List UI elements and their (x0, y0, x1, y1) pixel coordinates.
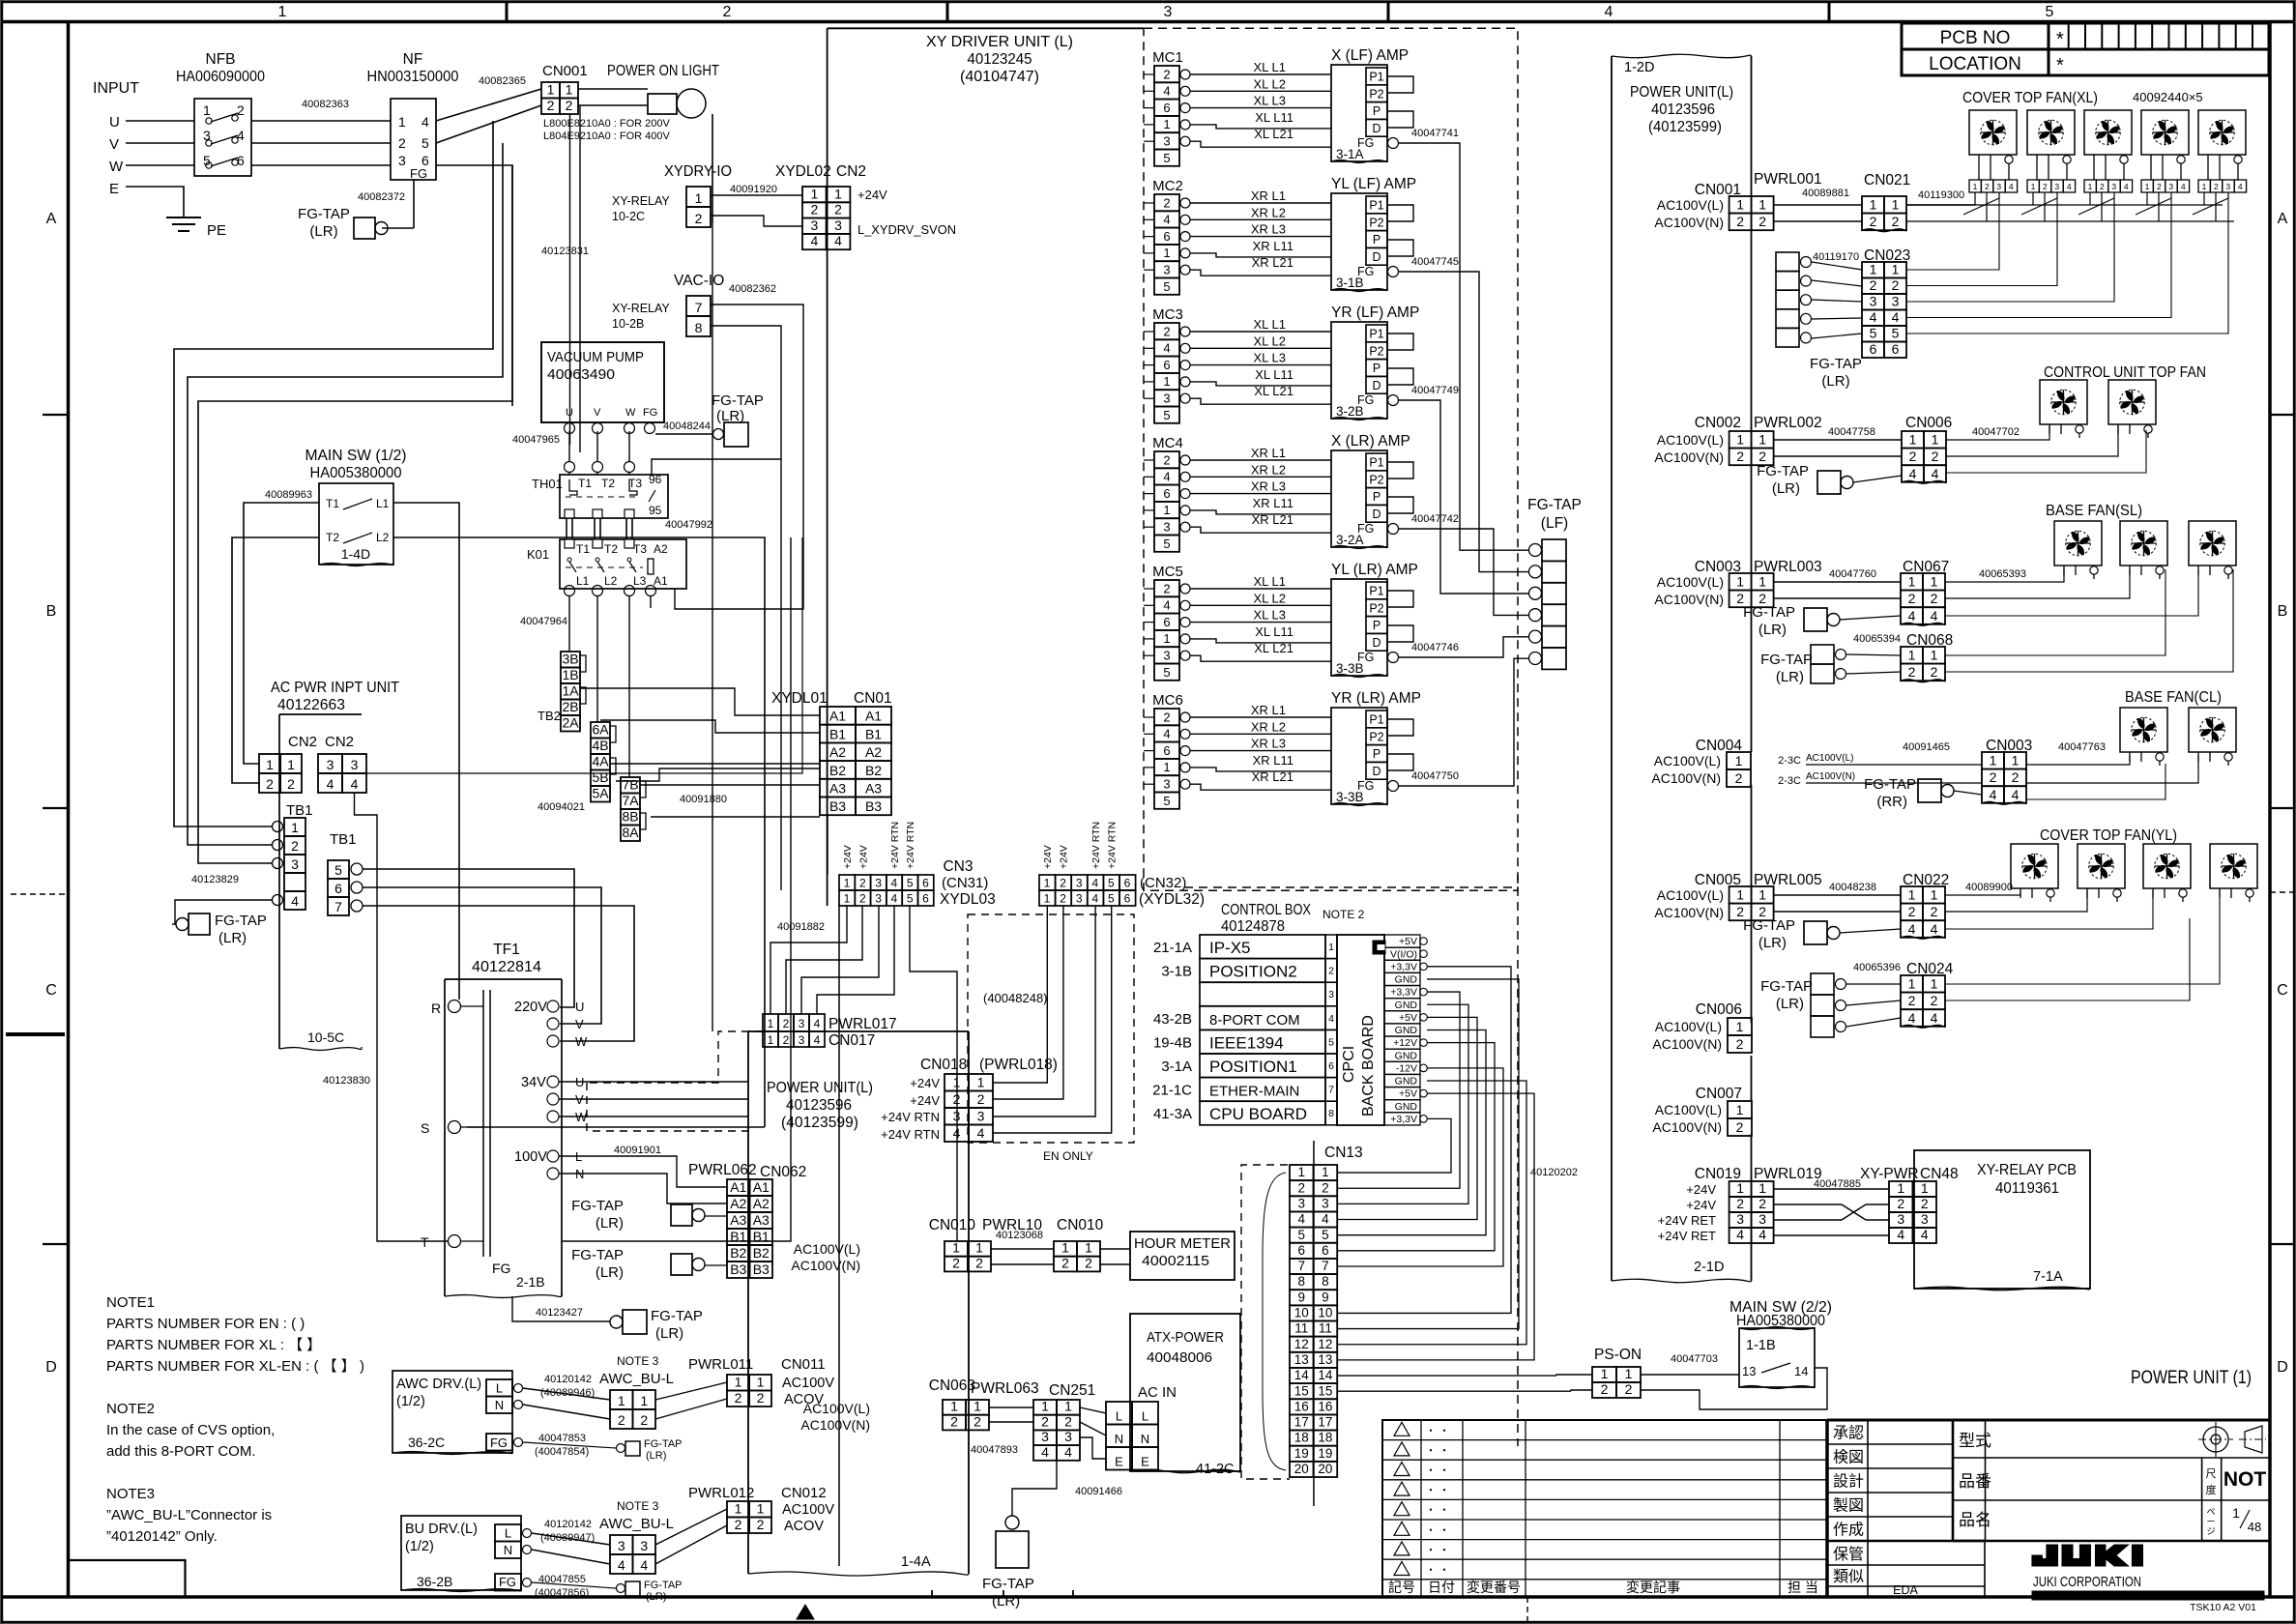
svg-text:8: 8 (1298, 1274, 1306, 1289)
svg-text:1-4D: 1-4D (341, 546, 370, 562)
svg-text:2: 2 (1085, 1255, 1092, 1270)
svg-text:5: 5 (1298, 1228, 1306, 1242)
wire NF to CN001 diag 2 (436, 105, 541, 143)
CN13 dashed box (1241, 1165, 1290, 1479)
svg-text:4: 4 (1897, 1227, 1904, 1242)
svg-text:IP-X5: IP-X5 (1209, 939, 1251, 957)
svg-text:40091465: 40091465 (1903, 741, 1950, 753)
svg-text:40063490: 40063490 (547, 366, 615, 383)
power unit (L) right box (1611, 56, 1613, 1281)
svg-text:3: 3 (1041, 1429, 1049, 1444)
terminal TB2 stack2 (591, 722, 610, 739)
wire NFB-NF W (251, 164, 391, 166)
svg-text:6: 6 (1163, 101, 1170, 115)
svg-text:4: 4 (291, 893, 299, 909)
svg-text:2: 2 (1908, 904, 1916, 919)
svg-text:3: 3 (799, 1017, 805, 1030)
svg-text:40047760: 40047760 (1829, 568, 1876, 580)
svg-text:AC100V(N): AC100V(N) (1654, 449, 1724, 465)
svg-text:43-2B: 43-2B (1153, 1011, 1192, 1028)
svg-text:3-2A: 3-2A (1336, 533, 1364, 547)
svg-text:4: 4 (1908, 1010, 1916, 1026)
svg-text:XR L2: XR L2 (1251, 719, 1286, 734)
svg-text:N: N (504, 1543, 512, 1557)
svg-text:16: 16 (1294, 1399, 1309, 1413)
svg-text:FG-TAP: FG-TAP (1810, 356, 1862, 372)
svg-text:3: 3 (1076, 892, 1083, 906)
wire TB2 to XYDL01 A1 (580, 688, 820, 715)
svg-text:CN011: CN011 (781, 1356, 826, 1373)
svg-text:FG-TAP: FG-TAP (1864, 776, 1916, 793)
svg-text:W: W (575, 1034, 588, 1049)
svg-text:L: L (496, 1381, 503, 1396)
svg-text:1: 1 (266, 757, 274, 772)
revision triangles and dots (1394, 1422, 1410, 1435)
svg-text:2: 2 (1908, 591, 1916, 606)
svg-text:POWER UNIT(L): POWER UNIT(L) (767, 1080, 873, 1096)
svg-text:AC100V(N): AC100V(N) (1652, 1036, 1722, 1052)
svg-text:40119300: 40119300 (1918, 189, 1964, 201)
svg-text:4: 4 (1870, 309, 1877, 325)
svg-text:4: 4 (2238, 182, 2243, 191)
svg-text:A2: A2 (829, 744, 846, 760)
svg-text:40047965: 40047965 (512, 434, 560, 446)
svg-text:(LR): (LR) (1776, 669, 1804, 685)
svg-text:1B: 1B (562, 667, 578, 682)
svg-text:T3: T3 (628, 477, 642, 490)
svg-text:1: 1 (1897, 1180, 1904, 1196)
svg-text:2: 2 (1298, 1180, 1306, 1195)
svg-text:A3: A3 (753, 1212, 770, 1228)
svg-text:5: 5 (203, 153, 211, 168)
svg-text:CN010: CN010 (1057, 1217, 1104, 1233)
svg-text:1: 1 (735, 1375, 742, 1390)
svg-text:FG: FG (410, 166, 427, 181)
svg-text:ETHER-MAIN: ETHER-MAIN (1209, 1084, 1299, 1100)
svg-text:2-3C: 2-3C (1778, 755, 1801, 767)
svg-text:PWRL011: PWRL011 (688, 1356, 753, 1373)
svg-text:COVER TOP FAN(YL): COVER TOP FAN(YL) (2040, 827, 2177, 844)
svg-text:4: 4 (977, 1125, 985, 1141)
svg-text:3: 3 (1163, 263, 1170, 277)
type/part-number/name table (1952, 1420, 1955, 1541)
svg-text:4: 4 (1932, 466, 1939, 481)
svg-text:+24V: +24V (910, 1093, 940, 1108)
svg-text:3: 3 (1870, 294, 1877, 309)
svg-text:XR L2: XR L2 (1251, 462, 1286, 477)
svg-text:・ ・: ・ ・ (1425, 1505, 1449, 1517)
svg-text:12: 12 (1318, 1337, 1332, 1351)
svg-text:1: 1 (2232, 1505, 2240, 1521)
svg-text:P2: P2 (1369, 87, 1383, 101)
svg-text:MAIN SW (1/2): MAIN SW (1/2) (305, 448, 407, 464)
svg-text:PE: PE (207, 222, 226, 239)
svg-text:AC100V(L): AC100V(L) (1806, 753, 1853, 764)
svg-text:AC100V(N): AC100V(N) (791, 1258, 860, 1273)
svg-text:3: 3 (618, 1538, 625, 1553)
svg-text:6A: 6A (592, 722, 609, 738)
svg-text:・ ・: ・ ・ (1425, 1425, 1449, 1436)
svg-text:COVER TOP FAN(XL): COVER TOP FAN(XL) (1962, 90, 2098, 106)
svg-text:D: D (45, 1359, 57, 1376)
svg-text:D: D (2277, 1359, 2288, 1376)
svg-text:CONTROL UNIT TOP FAN: CONTROL UNIT TOP FAN (2044, 364, 2206, 381)
JUKI logo (2032, 1545, 2142, 1566)
svg-text:2: 2 (1908, 664, 1916, 680)
svg-text:1: 1 (1064, 1399, 1072, 1414)
svg-text:4: 4 (1163, 341, 1170, 356)
svg-text:P2: P2 (1369, 216, 1383, 229)
svg-text:5: 5 (334, 862, 342, 878)
svg-text:40047702: 40047702 (1972, 426, 2020, 438)
svg-text:E: E (109, 181, 119, 197)
svg-text:2: 2 (1064, 1413, 1072, 1429)
svg-text:POWER UNIT (1): POWER UNIT (1) (2131, 1368, 2252, 1388)
svg-text:CN251: CN251 (1049, 1382, 1095, 1399)
svg-text:PCB NO: PCB NO (1940, 28, 2011, 48)
svg-text:40047964: 40047964 (520, 616, 567, 627)
svg-text:34V: 34V (521, 1075, 546, 1090)
svg-text:CN006: CN006 (1696, 1001, 1742, 1018)
svg-text:AC100V(N): AC100V(N) (1654, 905, 1724, 920)
svg-text:40048006: 40048006 (1147, 1349, 1212, 1366)
svg-text:2: 2 (1163, 67, 1170, 81)
svg-text:(XYDL32): (XYDL32) (1139, 891, 1205, 908)
svg-text:4: 4 (1091, 892, 1098, 906)
svg-text:XL L21: XL L21 (1254, 641, 1293, 655)
svg-text:40065394: 40065394 (1853, 633, 1901, 645)
svg-text:A1: A1 (865, 709, 882, 724)
svg-text:P1: P1 (1369, 585, 1383, 598)
svg-text:FG-TAP: FG-TAP (1760, 652, 1813, 668)
svg-text:1: 1 (1931, 574, 1938, 590)
svg-text:40122814: 40122814 (472, 959, 541, 975)
TF1 FG tap wire (512, 1296, 610, 1321)
wire TB2 to XYDL01 B1 (600, 720, 820, 733)
svg-text:2: 2 (2214, 182, 2219, 191)
svg-text:TB1: TB1 (286, 802, 313, 819)
wires MC feeds from dashed box left (1144, 73, 1154, 75)
svg-text:2: 2 (1736, 214, 1744, 229)
svg-text:U: U (575, 1000, 584, 1014)
svg-text:P: P (1373, 619, 1381, 632)
wire mainsw left 2 (232, 537, 319, 783)
svg-text:X (LR) AMP: X (LR) AMP (1331, 433, 1410, 449)
contactor K01 (560, 539, 686, 589)
svg-text:7: 7 (695, 300, 703, 315)
dashed EN alt path at CN017 (587, 1031, 763, 1083)
svg-text:3: 3 (834, 217, 842, 233)
svg-text:XL L2: XL L2 (1254, 333, 1287, 348)
svg-text:PWRL062: PWRL062 (688, 1162, 757, 1178)
svg-text:1: 1 (757, 1375, 765, 1390)
FG-TAP (LR) tf1 (623, 1310, 647, 1334)
svg-text:B2: B2 (753, 1245, 770, 1261)
wire mainsw left 1 (244, 503, 319, 764)
wire 100V N (559, 1174, 727, 1203)
svg-text:NOTE 3: NOTE 3 (617, 1354, 659, 1368)
svg-text:7: 7 (334, 899, 342, 914)
svg-text:P2: P2 (1369, 601, 1383, 615)
svg-text:+3,3V: +3,3V (1390, 961, 1417, 972)
svg-text:AC100V(L): AC100V(L) (1657, 574, 1724, 590)
svg-text:1: 1 (1736, 1180, 1744, 1196)
svg-text:検図: 検図 (1833, 1449, 1864, 1466)
svg-text:CN3: CN3 (943, 858, 973, 875)
svg-text:3: 3 (1163, 649, 1170, 663)
wires CN13 bundle to PS-ON (1556, 1375, 1592, 1376)
svg-text:T2: T2 (326, 531, 339, 544)
svg-text:40065396: 40065396 (1853, 962, 1901, 973)
svg-text:1: 1 (953, 1075, 961, 1090)
svg-text:40047746: 40047746 (1411, 642, 1459, 653)
right box edge segments (1751, 231, 1753, 431)
svg-text:XYDL02: XYDL02 (775, 163, 831, 180)
zone row ticks left (43, 414, 69, 416)
svg-text:(RR): (RR) (1876, 794, 1907, 810)
svg-text:4: 4 (1091, 877, 1098, 890)
wire NF down W (436, 165, 512, 406)
svg-text:1: 1 (1298, 1165, 1306, 1179)
svg-text:2B: 2B (562, 699, 578, 714)
svg-text:POSITION1: POSITION1 (1209, 1058, 1297, 1076)
wire input W (126, 164, 194, 166)
wire NFB-NF U (251, 120, 391, 122)
svg-text:AC100V(L): AC100V(L) (803, 1401, 870, 1416)
svg-text:4: 4 (1605, 4, 1613, 20)
svg-text:1: 1 (952, 1240, 960, 1256)
svg-text:40124878: 40124878 (1221, 918, 1285, 935)
wires CN32 down to CN018 (993, 906, 1047, 1083)
svg-text:PWRL063: PWRL063 (971, 1380, 1039, 1397)
svg-text:XYDRY-IO: XYDRY-IO (664, 163, 732, 180)
wire 34V V (559, 1098, 748, 1100)
svg-text:2: 2 (1908, 993, 1916, 1008)
wires CN067 to base fans SL (1945, 569, 2064, 582)
svg-text:220V: 220V (514, 1000, 547, 1015)
svg-text:AC100V(N): AC100V(N) (1654, 592, 1724, 607)
svg-text:+24V RET: +24V RET (1658, 1229, 1716, 1243)
svg-text:R: R (431, 1000, 441, 1016)
svg-text:7B: 7B (622, 777, 638, 793)
svg-text:XL L11: XL L11 (1255, 110, 1293, 125)
svg-text:2: 2 (1909, 449, 1917, 464)
svg-text:NOTE 3: NOTE 3 (617, 1499, 659, 1513)
svg-text:承認: 承認 (1833, 1425, 1864, 1442)
svg-text:XY-RELAY: XY-RELAY (612, 302, 670, 315)
svg-text:(40048248): (40048248) (983, 991, 1048, 1005)
svg-text:FG-TAP: FG-TAP (982, 1576, 1034, 1592)
wire mainsw right 2 (393, 537, 765, 1127)
svg-text:5A: 5A (592, 786, 609, 801)
svg-text:1: 1 (1758, 1180, 1766, 1196)
svg-text:5: 5 (2046, 4, 2054, 20)
svg-text:1: 1 (1736, 887, 1744, 903)
wires MC1 to amp (1190, 73, 1331, 75)
wire tb1b-5 (363, 869, 574, 1007)
svg-text:5: 5 (1163, 408, 1170, 422)
svg-text:4: 4 (351, 776, 359, 792)
svg-text:NOT: NOT (2223, 1468, 2267, 1491)
svg-text:(CN31): (CN31) (942, 875, 988, 891)
svg-text:1: 1 (1908, 976, 1916, 992)
svg-text:6: 6 (1163, 229, 1170, 244)
amp YR (LR) AMP P jumper wires (1387, 719, 1413, 736)
svg-text:17: 17 (1318, 1415, 1332, 1430)
svg-text:(LR): (LR) (1772, 480, 1800, 497)
svg-text:2: 2 (859, 892, 866, 906)
CPCI BACK BOARD (1337, 935, 1384, 1125)
wires CN024 to fans (1945, 890, 2220, 984)
wires CN023 to fan pin3 (1906, 192, 1999, 270)
svg-text:FG-TAP: FG-TAP (571, 1198, 624, 1214)
bottom fold marks (1526, 1597, 1528, 1622)
FG-TAP CN251 (1005, 1516, 1019, 1529)
svg-text:4: 4 (1892, 309, 1900, 325)
svg-text:2: 2 (1041, 1413, 1049, 1429)
svg-text:6: 6 (922, 877, 929, 890)
svg-text:2: 2 (2157, 182, 2162, 191)
svg-text:6: 6 (1892, 341, 1900, 357)
svg-text:XR L21: XR L21 (1252, 512, 1293, 527)
amp YR (LF) AMP P jumper wires (1387, 333, 1413, 350)
svg-text:AWC_BU-L: AWC_BU-L (599, 1516, 674, 1532)
svg-text:4: 4 (814, 1033, 821, 1047)
svg-text:FG-TAP: FG-TAP (651, 1308, 703, 1324)
svg-text:・ ・: ・ ・ (1425, 1465, 1449, 1477)
wires amp FG to FG-TAP LF (1399, 143, 1528, 550)
FG-TAP (LR) left low (172, 900, 272, 924)
svg-text:ー: ー (2206, 1517, 2215, 1526)
svg-text:1: 1 (287, 757, 295, 772)
svg-text:8: 8 (1328, 1108, 1334, 1119)
svg-text:1: 1 (844, 877, 851, 890)
svg-text:40123831: 40123831 (541, 246, 589, 257)
svg-text:1: 1 (1163, 246, 1170, 260)
svg-text:XY-RELAY PCB: XY-RELAY PCB (1977, 1162, 2077, 1178)
svg-text:FG-TAP: FG-TAP (571, 1247, 624, 1263)
svg-text:XR L2: XR L2 (1251, 205, 1286, 219)
svg-text:MC5: MC5 (1152, 564, 1183, 580)
svg-text:PWRL017: PWRL017 (828, 1016, 897, 1032)
svg-text:1: 1 (278, 4, 287, 20)
lamp wires (578, 88, 648, 90)
svg-text:T2: T2 (601, 477, 615, 490)
svg-text:A2: A2 (865, 744, 882, 760)
svg-text:10-2C: 10-2C (612, 210, 645, 223)
svg-text:4: 4 (1908, 608, 1916, 623)
svg-text:1: 1 (2012, 753, 2020, 768)
svg-text:V: V (109, 136, 119, 153)
svg-text:CPU BOARD: CPU BOARD (1209, 1105, 1307, 1123)
svg-text:2: 2 (1601, 1381, 1609, 1397)
svg-text:YL (LR) AMP: YL (LR) AMP (1331, 562, 1418, 578)
wire NF FG (413, 180, 415, 228)
svg-text:3-1B: 3-1B (1336, 275, 1364, 290)
svg-text:EN ONLY: EN ONLY (1043, 1149, 1093, 1163)
svg-text:4: 4 (834, 233, 842, 248)
svg-text:1: 1 (203, 102, 211, 118)
svg-text:+5V: +5V (1399, 1088, 1417, 1100)
svg-text:2: 2 (950, 1413, 958, 1429)
svg-text:40123245: 40123245 (968, 51, 1032, 68)
svg-text:A3: A3 (829, 781, 846, 797)
svg-text:6: 6 (1163, 358, 1170, 372)
svg-text:3: 3 (799, 1033, 805, 1047)
svg-text:40120142: 40120142 (544, 1519, 592, 1530)
svg-text:2: 2 (1328, 966, 1334, 977)
svg-text:6: 6 (922, 892, 929, 906)
svg-text:AC100V(N): AC100V(N) (1652, 1119, 1722, 1135)
svg-text:2: 2 (834, 202, 842, 217)
svg-text:BACK BOARD: BACK BOARD (1360, 1015, 1377, 1116)
svg-text:PWRL001: PWRL001 (1754, 171, 1822, 188)
svg-text:36-2C: 36-2C (408, 1435, 445, 1450)
svg-text:14: 14 (1318, 1368, 1333, 1382)
svg-text:40047742: 40047742 (1411, 513, 1459, 525)
svg-text:1-1B: 1-1B (1746, 1338, 1776, 1353)
svg-text:AC100V(L): AC100V(L) (1657, 197, 1724, 213)
svg-text:HN003150000: HN003150000 (367, 69, 459, 85)
svg-text:3: 3 (1163, 777, 1170, 792)
svg-text:2: 2 (1870, 277, 1877, 293)
svg-text:2: 2 (1990, 769, 1997, 785)
svg-text:XL L1: XL L1 (1254, 60, 1287, 74)
svg-text:FG: FG (643, 407, 657, 419)
svg-text:1: 1 (1758, 197, 1766, 213)
svg-text:(40047854): (40047854) (535, 1446, 589, 1458)
svg-text:+24V RTN: +24V RTN (1090, 822, 1102, 869)
svg-text:3-2B: 3-2B (1336, 404, 1364, 419)
svg-text:B3: B3 (865, 798, 882, 814)
svg-text:12: 12 (1294, 1337, 1309, 1351)
svg-text:2: 2 (1892, 277, 1900, 293)
svg-text:1: 1 (1736, 1019, 1744, 1034)
backboard power rail (1384, 935, 1420, 947)
svg-text:AC100V(L): AC100V(L) (1657, 432, 1724, 448)
wires PWRL002-CN006 (1774, 439, 1902, 441)
svg-text:3: 3 (1996, 182, 2001, 191)
svg-text:”AWC_BU-L”Connector is: ”AWC_BU-L”Connector is (106, 1507, 272, 1523)
svg-text:(40123599): (40123599) (1648, 119, 1722, 135)
svg-text:CONTROL BOX: CONTROL BOX (1221, 902, 1312, 918)
svg-text:40123596: 40123596 (1651, 101, 1715, 118)
wire TB2 to XYDL01 B2 (616, 768, 820, 781)
svg-text:2: 2 (266, 776, 274, 792)
svg-text:40048244: 40048244 (663, 420, 711, 432)
wire B3 to CN3 (827, 815, 828, 875)
svg-text:+24V RET: +24V RET (1658, 1213, 1716, 1228)
svg-text:YL (LF) AMP: YL (LF) AMP (1331, 176, 1416, 192)
svg-text:7-1A: 7-1A (2033, 1269, 2063, 1285)
svg-text:9: 9 (1298, 1290, 1306, 1304)
svg-text:2: 2 (1736, 1036, 1744, 1052)
fan wiring XL (1978, 164, 1980, 180)
svg-text:5: 5 (1163, 279, 1170, 294)
svg-text:4: 4 (2067, 182, 2072, 191)
svg-text:+24V RTN: +24V RTN (1106, 822, 1118, 869)
wire xydry1 (711, 194, 802, 196)
svg-text:1: 1 (640, 1393, 648, 1408)
svg-text:(LR): (LR) (1758, 622, 1787, 638)
svg-text:AC100V(L): AC100V(L) (1655, 1019, 1722, 1034)
svg-text:1-2D: 1-2D (1624, 60, 1654, 75)
svg-text:40047758: 40047758 (1828, 426, 1875, 438)
svg-text:L2: L2 (376, 531, 390, 544)
svg-text:4: 4 (1909, 466, 1917, 481)
svg-text:・ ・: ・ ・ (1425, 1524, 1449, 1536)
svg-text:CN010: CN010 (929, 1217, 976, 1233)
